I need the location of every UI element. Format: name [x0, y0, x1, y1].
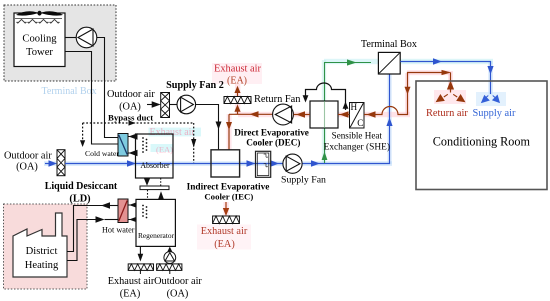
- wire: hot water return pipe (HX2 to district heating) with arrow: [67, 202, 118, 251]
- svg-text:Outdoor air: Outdoor air: [4, 151, 52, 162]
- svg-text:Tower: Tower: [26, 47, 53, 58]
- svg-text:Exhaust air: Exhaust air: [201, 226, 248, 237]
- wire: return air duct, fan to junction and drop into IEC: [229, 114, 273, 150]
- wire: regenerator to HX2 top connector with arrow: [128, 202, 138, 208]
- svg-text:Exchanger (SHE): Exchanger (SHE): [324, 142, 390, 153]
- pump P1 (cooling water): [65, 27, 97, 48]
- fan F2 (Supply Fan 2): [170, 95, 196, 114]
- arrow: bypass duct rightward: [129, 120, 136, 125]
- cooling tower fan blades: [16, 11, 63, 16]
- label "Sensible Heat Exchanger (SHE)": [324, 131, 390, 153]
- arrows: return air flow (leftward) and duct corners: [296, 70, 451, 118]
- svg-text:(OA): (OA): [16, 162, 38, 173]
- arrow: bypass duct down to supply line: [191, 139, 196, 148]
- louver L4 (IEC exhaust air out): [213, 216, 240, 224]
- damper D2 (top OA inlet): [161, 93, 170, 118]
- arrow: outdoor air into top damper: [147, 101, 161, 107]
- arrows: supply air flow along main duct: [127, 118, 393, 167]
- desiccant interchange bar: [140, 186, 169, 190]
- svg-text:Heating: Heating: [25, 260, 59, 271]
- svg-text:Hot water: Hot water: [102, 225, 135, 234]
- halo band: supply air main duct glow: [44, 59, 506, 166]
- louver L2 (regenerator outdoor air in): [157, 264, 182, 274]
- wire: absorber outlet down to interchange bar (solid, arrow): [144, 178, 150, 186]
- arrow: outdoor air up into regenerator: [167, 247, 173, 253]
- wire: SHE crossover loop with jump: [303, 83, 349, 110]
- svg-text:Bypass duct: Bypass duct: [108, 113, 153, 123]
- wire: green sensing line from supply duct to terminal box: [322, 59, 371, 163]
- label "District Heating": [25, 246, 59, 271]
- district heating plant icon: [13, 213, 67, 277]
- label "Cooling Tower": [22, 34, 57, 59]
- sensible heat exchanger SHE: [310, 101, 338, 128]
- svg-text:Return Fan: Return Fan: [254, 94, 301, 105]
- wire: supply fan 2 duct down to IEC with arrow: [196, 105, 222, 150]
- svg-text:Exhaust air: Exhaust air: [214, 64, 262, 75]
- svg-text:Supply Fan 2: Supply Fan 2: [166, 80, 224, 91]
- wire: IEC exhaust drop to louver with arrow: [223, 202, 229, 216]
- svg-text:Regenerator: Regenerator: [138, 231, 175, 240]
- heat exchanger HX2 (hot water): [118, 199, 128, 223]
- svg-text:(EA): (EA): [120, 289, 141, 300]
- district heating dotted enclosure (pink): [4, 204, 88, 289]
- cooling tower spray nozzles: [15, 19, 62, 24]
- wire: regenerator exhaust drop to louver with arrow: [138, 246, 144, 261]
- svg-text:(EA): (EA): [156, 145, 173, 155]
- svg-text:Cooling: Cooling: [22, 34, 57, 45]
- regenerator vessel: [136, 199, 175, 246]
- svg-text:Liquid Desiccant: Liquid Desiccant: [45, 181, 118, 192]
- arrow: recirculated air down into IEC: [226, 122, 232, 130]
- absorber vessel: [136, 134, 174, 178]
- label "Outdoor air (OA)" top inlet: [107, 89, 155, 113]
- wire: bar to regenerator dotted riser: [147, 190, 149, 200]
- svg-text:Conditioning Room: Conditioning Room: [433, 135, 531, 149]
- wire: cooling water return pipe (tower to cold-water HX): [65, 52, 118, 145]
- label "Outdoor air (OA)" bottom: [154, 276, 202, 300]
- label "Indirect Evaporative Cooler (IEC)": [187, 182, 270, 201]
- svg-text:H: H: [350, 102, 357, 112]
- svg-text:(LD): (LD): [69, 194, 90, 205]
- arrows: supply air flow into room: [433, 58, 494, 74]
- label "Outdoor air (OA)" left inlet: [4, 151, 52, 173]
- svg-text:C: C: [357, 118, 363, 128]
- svg-text:Direct Evaporative: Direct Evaporative: [234, 128, 309, 138]
- wire: regenerator to HX2 bottom connector with arrow: [128, 216, 138, 222]
- arrow: return air leftward toward junction: [250, 111, 259, 117]
- svg-text:Sensible Heat: Sensible Heat: [332, 131, 383, 141]
- wire: supply duct terminal box to room (blue): [400, 62, 490, 95]
- svg-text:Absorber: Absorber: [140, 161, 170, 170]
- wire: absorber to HX1 bottom connector with arrow: [128, 150, 138, 156]
- label "Liquid Desiccant (LD)": [45, 181, 118, 205]
- arrow: bypass duct down-left: [80, 140, 85, 147]
- wire: absorber to bar dotted riser: [160, 178, 162, 186]
- regenerator packing dots: [142, 205, 147, 219]
- indirect evaporative cooler IEC: [211, 150, 240, 177]
- arrow: desiccant up from regenerator to bar: [158, 191, 164, 199]
- wire: main supply air duct (blue): [65, 74, 390, 164]
- wire: hot water supply pipe (district heating to HX2) with arrow: [67, 216, 118, 260]
- cooling tower dashed enclosure: [4, 5, 116, 81]
- svg-text:Exhaust air: Exhaust air: [108, 276, 155, 287]
- svg-text:District: District: [26, 246, 58, 257]
- svg-text:Supply air: Supply air: [473, 108, 517, 119]
- pump P2 (regenerator scavenging fan): [164, 252, 176, 264]
- svg-text:Terminal Box: Terminal Box: [361, 39, 417, 50]
- label "Exhaust air (EA)" bottom: [108, 276, 155, 300]
- svg-text:Outdoor air: Outdoor air: [154, 276, 202, 287]
- damper D1 (left OA inlet): [57, 150, 65, 176]
- absorber packing dots: [142, 137, 147, 153]
- cooling tower CT: [14, 13, 65, 67]
- arrow: exhaust up into louver: [234, 105, 240, 115]
- svg-text:Terminal Box: Terminal Box: [42, 86, 97, 97]
- louver L1 (regenerator exhaust air out): [128, 264, 153, 274]
- svg-text:Return air: Return air: [426, 108, 468, 119]
- wire: bypass duct (dotted): [83, 123, 194, 163]
- louver L3 (exhaust air out, top): [224, 97, 251, 104]
- wire: absorber to HX1 top connector with arrow: [128, 133, 138, 139]
- svg-text:Supply Fan: Supply Fan: [281, 174, 326, 185]
- svg-text:Cooler (IEC): Cooler (IEC): [204, 191, 253, 201]
- label "Direct Evaporative Cooler (DEC)": [234, 128, 309, 148]
- wire: return air duct from room through H/C and SHE (red): [294, 73, 451, 115]
- svg-text:(EA): (EA): [227, 76, 247, 87]
- direct evaporative cooler DEC: [256, 151, 271, 177]
- fan F1 (Supply Fan): [283, 154, 302, 173]
- arrows: return air pickup inside room: [437, 82, 465, 102]
- arrow: exhaust up out of louver: [234, 86, 240, 97]
- conditioning room: [416, 81, 547, 190]
- halo band: return air duct glow: [197, 63, 466, 250]
- svg-text:(OA): (OA): [167, 289, 189, 300]
- arrows: supply diffuser spread in room: [482, 96, 499, 103]
- label "Exhaust air (EA)" under IEC (red): [201, 226, 248, 250]
- heating/cooling coil H/C: [350, 102, 365, 128]
- terminal box TB: [378, 52, 400, 74]
- ghost label: faint "Exhaust air (EA)" watermark over absorber: [149, 127, 202, 155]
- wire: green line passing through SHE: [324, 101, 326, 128]
- wire: cooling water supply pipe (pump to cold-water HX): [97, 38, 118, 138]
- fan F3 (Return Fan): [273, 104, 294, 125]
- heat exchanger HX1 (cold water): [118, 134, 128, 157]
- svg-text:Outdoor air: Outdoor air: [107, 89, 155, 100]
- arrow: outdoor air into left damper: [45, 160, 57, 166]
- label "Exhaust air (EA)" top (red): [214, 64, 262, 87]
- svg-text:(OA): (OA): [119, 102, 141, 113]
- svg-text:(EA): (EA): [214, 239, 235, 250]
- svg-text:Cold water: Cold water: [85, 149, 119, 158]
- svg-text:Cooler (DEC): Cooler (DEC): [246, 137, 300, 147]
